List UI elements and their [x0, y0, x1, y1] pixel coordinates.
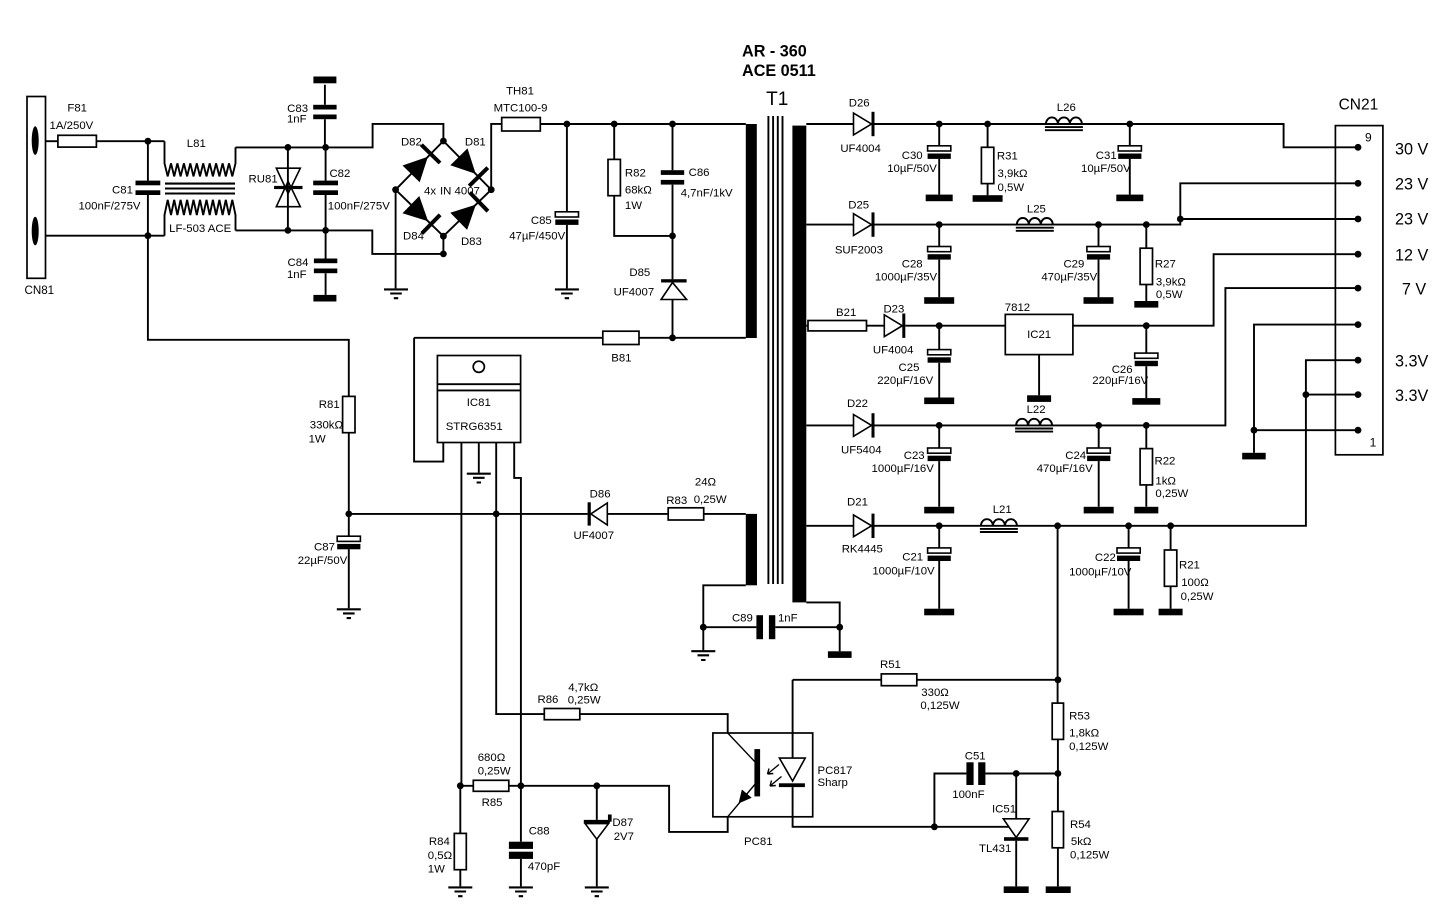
IC81 pin2 wire	[460, 443, 462, 786]
svg-text:CN81: CN81	[24, 284, 54, 297]
CN21 pin 3	[1355, 357, 1362, 364]
svg-text:R85: R85	[482, 797, 503, 809]
svg-text:D21: D21	[847, 496, 868, 508]
svg-text:D23: D23	[883, 303, 904, 315]
node C31	[1126, 121, 1133, 128]
capacitor C89	[756, 615, 763, 639]
svg-text:UF4007: UF4007	[574, 530, 615, 542]
svg-text:TL431: TL431	[979, 843, 1011, 855]
capacitor C29	[1098, 225, 1100, 298]
svg-text:F81: F81	[67, 103, 87, 115]
ferrite bead B81	[603, 331, 639, 344]
svg-text:R27: R27	[1155, 258, 1176, 270]
wire F81 to node L	[96, 140, 164, 142]
wire row4 rail	[806, 288, 1358, 425]
svg-text:330Ω: 330Ω	[921, 687, 949, 699]
svg-text:5kΩ: 5kΩ	[1071, 836, 1092, 848]
svg-text:3.3V: 3.3V	[1395, 353, 1429, 371]
wire R51 row	[793, 679, 1058, 681]
svg-text:22µF/50V: 22µF/50V	[298, 555, 348, 567]
CN21 pin 7	[1355, 216, 1362, 223]
node C24	[1095, 422, 1102, 429]
capacitor C24	[1098, 425, 1100, 506]
wire DC+ rail	[540, 123, 746, 125]
wire row3 rail	[806, 254, 1358, 326]
optocoupler PC81 box	[713, 733, 813, 817]
wire AC line rail top	[236, 124, 444, 147]
resistor R81	[148, 236, 349, 514]
ground D87	[585, 887, 609, 896]
op-amp regulator IC81 STRG6351 package	[437, 356, 520, 443]
svg-text:100nF/275V: 100nF/275V	[328, 200, 390, 212]
ground C85	[555, 289, 579, 298]
svg-text:L22: L22	[1027, 404, 1046, 416]
svg-text:PC81: PC81	[744, 836, 773, 848]
svg-text:0,25W: 0,25W	[1155, 488, 1188, 500]
wire CN81 pin2 to node N	[46, 235, 165, 237]
node C22	[1125, 522, 1132, 529]
PC81 phototransistor	[728, 733, 755, 762]
node R31	[984, 121, 991, 128]
diode D26	[854, 113, 872, 135]
svg-text:STRG6351: STRG6351	[446, 421, 503, 433]
CN21 pin 8	[1355, 180, 1362, 187]
svg-text:220µF/16V: 220µF/16V	[1092, 375, 1148, 387]
svg-text:D85: D85	[629, 267, 650, 279]
svg-text:C81: C81	[112, 185, 133, 197]
resistor R53	[1052, 703, 1063, 739]
transformer T1 secondary winding	[792, 126, 806, 603]
resistor R27	[1145, 225, 1147, 301]
connector CN81	[27, 97, 46, 279]
svg-text:47µF/450V: 47µF/450V	[509, 231, 565, 243]
node D87	[593, 782, 600, 789]
diode D23	[884, 315, 902, 337]
resistor R83	[668, 508, 704, 520]
diode D84	[403, 196, 429, 221]
svg-text:30 V: 30 V	[1395, 141, 1429, 159]
svg-text:4,7kΩ: 4,7kΩ	[568, 682, 599, 694]
svg-text:1,8kΩ: 1,8kΩ	[1069, 728, 1100, 740]
svg-text:IC81: IC81	[467, 397, 491, 409]
svg-text:LF-503 ACE: LF-503 ACE	[169, 223, 231, 235]
diode D25	[854, 214, 872, 236]
node C30	[936, 121, 943, 128]
svg-text:C21: C21	[902, 552, 923, 564]
diode D21	[854, 515, 872, 537]
node bridge top	[440, 138, 447, 145]
capacitor C82	[325, 147, 327, 230]
ground bridge	[384, 289, 408, 298]
CN21 pin 9	[1355, 144, 1362, 151]
svg-text:C23: C23	[904, 450, 925, 462]
diode D83	[450, 205, 476, 230]
svg-text:C89: C89	[732, 613, 753, 625]
bridge rectifier frame	[396, 141, 492, 236]
CN21 pin 2	[1355, 391, 1362, 398]
shunt regulator IC51 TL431	[1015, 774, 1017, 887]
svg-text:D84: D84	[403, 231, 424, 243]
svg-text:UF4004: UF4004	[873, 345, 914, 357]
svg-text:RK4445: RK4445	[842, 543, 883, 555]
node C26	[1143, 322, 1150, 329]
wire bridge right to TH81	[491, 124, 502, 190]
node C23	[936, 422, 943, 429]
svg-text:D87: D87	[612, 817, 633, 829]
node R51-R53	[1055, 676, 1062, 683]
ground CN21	[1242, 453, 1266, 460]
resistor R51	[881, 674, 917, 686]
svg-text:1A/250V: 1A/250V	[50, 120, 94, 132]
capacitor C26	[1145, 326, 1147, 398]
svg-text:23 V: 23 V	[1395, 210, 1429, 228]
svg-text:RU81: RU81	[249, 173, 278, 185]
capacitor C23	[938, 425, 940, 506]
svg-text:CN21: CN21	[1339, 97, 1379, 114]
svg-text:1000µF/10V: 1000µF/10V	[1069, 567, 1132, 579]
svg-text:C86: C86	[689, 167, 710, 179]
capacitor C85	[566, 124, 568, 288]
svg-text:0,5W: 0,5W	[998, 182, 1025, 194]
svg-text:C22: C22	[1095, 552, 1116, 564]
wire B81 to IC81 drain	[414, 338, 443, 462]
svg-text:4,7nF/1kV: 4,7nF/1kV	[681, 187, 733, 199]
resistor R22	[1145, 425, 1147, 506]
diode D86	[588, 502, 591, 525]
capacitor C83	[313, 77, 336, 84]
regulator IC21 7812	[1005, 314, 1073, 354]
node R22	[1143, 422, 1150, 429]
svg-text:3,9kΩ: 3,9kΩ	[998, 168, 1029, 180]
svg-text:1nF: 1nF	[287, 114, 307, 126]
transformer T1 primary winding top	[746, 124, 757, 338]
node 23V tap	[1177, 216, 1184, 223]
svg-text:B21: B21	[836, 307, 856, 319]
svg-text:C88: C88	[529, 826, 550, 838]
ground R84	[448, 887, 472, 896]
svg-text:R53: R53	[1069, 711, 1090, 723]
wire row5 rail	[806, 360, 1358, 526]
node L	[145, 138, 152, 145]
svg-text:C85: C85	[531, 215, 552, 227]
svg-text:220µF/16V: 220µF/16V	[877, 375, 933, 387]
node R21	[1167, 522, 1174, 529]
ground C87	[337, 609, 361, 618]
svg-text:D83: D83	[461, 236, 482, 248]
svg-text:L21: L21	[993, 504, 1012, 516]
svg-text:3.3V: 3.3V	[1395, 387, 1429, 405]
capacitor C86	[672, 124, 674, 236]
ferrite bead B21	[808, 321, 867, 331]
svg-text:1W: 1W	[625, 200, 642, 212]
node R27	[1143, 221, 1150, 228]
svg-text:C84: C84	[288, 257, 309, 269]
svg-text:R86: R86	[538, 694, 559, 706]
svg-text:R81: R81	[319, 399, 340, 411]
svg-text:0,25W: 0,25W	[1181, 591, 1214, 603]
svg-text:D82: D82	[401, 137, 422, 149]
inductor L26	[1046, 117, 1082, 124]
svg-text:23 V: 23 V	[1395, 176, 1429, 194]
svg-text:D22: D22	[847, 398, 868, 410]
svg-text:R22: R22	[1155, 456, 1176, 468]
resistor R54	[1052, 812, 1063, 848]
svg-text:C24: C24	[1065, 450, 1086, 462]
svg-text:100nF: 100nF	[952, 789, 984, 801]
svg-text:1: 1	[1370, 436, 1377, 450]
svg-text:UF4007: UF4007	[614, 286, 655, 298]
fuse F81	[58, 135, 97, 147]
node C51-TL431	[1013, 770, 1020, 777]
svg-text:470pF: 470pF	[528, 861, 560, 873]
svg-text:0,25W: 0,25W	[568, 695, 601, 707]
ground R54	[1046, 886, 1071, 893]
svg-text:D86: D86	[590, 489, 611, 501]
capacitor C87	[345, 511, 352, 518]
wire primary bottom to C89	[703, 585, 839, 627]
PC81 LED	[792, 680, 794, 758]
inductor L81 core	[165, 184, 235, 194]
svg-text:R21: R21	[1179, 560, 1200, 572]
svg-text:9: 9	[1365, 130, 1372, 144]
node D85-B81	[669, 334, 676, 341]
node 3.3V tap	[1303, 391, 1310, 398]
svg-text:10µF/50V: 10µF/50V	[887, 163, 937, 175]
inductor L81 top winding	[165, 141, 236, 176]
resistor R31	[987, 124, 989, 195]
node C21	[936, 522, 943, 529]
ground C89 right	[839, 627, 841, 651]
svg-text:L25: L25	[1027, 204, 1046, 216]
CN21 pin 4	[1355, 321, 1362, 328]
svg-text:R84: R84	[429, 836, 450, 848]
capacitor C28	[938, 225, 940, 298]
svg-text:10µF/50V: 10µF/50V	[1081, 163, 1131, 175]
wire C51 row	[934, 774, 1058, 827]
node bridge right	[488, 186, 495, 193]
inductor L25	[1017, 218, 1053, 225]
svg-text:68kΩ: 68kΩ	[625, 185, 652, 197]
resistor R85	[473, 780, 509, 791]
svg-text:1nF: 1nF	[287, 269, 307, 281]
svg-text:7812: 7812	[1005, 302, 1030, 314]
resistor R21	[1170, 526, 1172, 609]
node bridge left	[392, 186, 399, 193]
svg-text:1000µF/16V: 1000µF/16V	[872, 463, 935, 475]
svg-text:0,5Ω: 0,5Ω	[428, 850, 453, 862]
wire CN81 pin1 to F81	[46, 140, 58, 142]
wire CN21 ground pins	[1254, 325, 1358, 453]
IC21 ground	[1038, 355, 1040, 396]
svg-text:680Ω: 680Ω	[478, 752, 506, 764]
svg-text:UF5404: UF5404	[841, 445, 882, 457]
svg-text:R82: R82	[625, 168, 646, 180]
IC81 pin5 wire	[514, 443, 521, 786]
svg-text:C29: C29	[1063, 258, 1084, 270]
svg-text:1000µF/10V: 1000µF/10V	[872, 566, 935, 578]
wire B81 row	[414, 337, 746, 339]
node C28	[936, 221, 943, 228]
transformer T1 core	[768, 116, 782, 584]
capacitor C51	[966, 762, 973, 785]
svg-text:UF4004: UF4004	[840, 143, 881, 155]
svg-text:C82: C82	[329, 168, 350, 180]
svg-text:470µF/35V: 470µF/35V	[1041, 272, 1097, 284]
svg-text:12 V: 12 V	[1395, 247, 1429, 265]
svg-text:0,5W: 0,5W	[1156, 289, 1183, 301]
node C51 left	[931, 823, 938, 830]
svg-text:IC51: IC51	[992, 804, 1016, 816]
node C25	[936, 322, 943, 329]
svg-text:4x: 4x	[424, 185, 436, 197]
wire bridge bottom stub	[442, 236, 444, 254]
capacitor C25	[938, 326, 940, 398]
inductor L81 bottom winding	[165, 200, 236, 236]
svg-text:L81: L81	[187, 138, 206, 150]
wire R86 to PC81	[580, 714, 728, 733]
svg-text:100Ω: 100Ω	[1181, 577, 1209, 589]
svg-text:MTC100-9: MTC100-9	[494, 103, 548, 115]
resistor R84	[459, 786, 461, 887]
resistor R86	[544, 709, 580, 720]
svg-text:C51: C51	[965, 751, 986, 763]
ground C88	[509, 887, 533, 896]
svg-text:C30: C30	[902, 150, 923, 162]
capacitor C81	[147, 141, 149, 236]
CN21 pin 5	[1355, 285, 1362, 292]
svg-text:IN 4007: IN 4007	[440, 185, 480, 197]
zener D87	[596, 786, 598, 887]
capacitor C22	[1128, 526, 1130, 609]
node C29	[1095, 221, 1102, 228]
svg-text:100nF/275V: 100nF/275V	[78, 201, 140, 213]
svg-text:0,25W: 0,25W	[694, 494, 727, 506]
node R85-C88	[518, 782, 525, 789]
node feedback	[1054, 522, 1061, 529]
svg-text:C25: C25	[899, 362, 920, 374]
wire feedback vertical	[1057, 526, 1059, 887]
svg-text:T1: T1	[766, 89, 788, 110]
svg-text:R31: R31	[997, 151, 1018, 163]
svg-text:D81: D81	[465, 137, 486, 149]
inductor L21	[981, 519, 1017, 526]
wire row2 23V rail	[806, 183, 1358, 224]
capacitor C31	[1129, 124, 1131, 195]
svg-text:Sharp: Sharp	[818, 777, 848, 789]
svg-text:1kΩ: 1kΩ	[1155, 475, 1176, 487]
svg-text:L26: L26	[1057, 102, 1076, 114]
node C89 right	[836, 624, 843, 631]
inductor L22	[1016, 419, 1052, 426]
svg-text:R54: R54	[1070, 819, 1091, 831]
node R84-R85	[457, 782, 464, 789]
svg-text:0,125W: 0,125W	[920, 700, 960, 712]
svg-text:24Ω: 24Ω	[695, 477, 717, 489]
node C89 left	[700, 624, 707, 631]
svg-text:470µF/16V: 470µF/16V	[1037, 463, 1093, 475]
svg-text:330kΩ: 330kΩ	[310, 420, 344, 432]
CN21 pin 6	[1355, 251, 1362, 258]
node R82-C86-D85	[669, 233, 676, 240]
wire R85 row	[460, 785, 597, 787]
diode D82	[403, 157, 428, 183]
capacitor C88	[520, 786, 522, 887]
thermistor TH81	[502, 118, 541, 132]
svg-text:3,9kΩ: 3,9kΩ	[1156, 277, 1187, 289]
svg-text:1nF: 1nF	[778, 613, 798, 625]
PC81 emitter wire	[597, 786, 728, 832]
svg-text:D25: D25	[848, 200, 869, 212]
svg-text:7 V: 7 V	[1402, 280, 1427, 298]
diode D22	[854, 415, 872, 437]
svg-text:C87: C87	[314, 542, 335, 554]
wire aux rail	[349, 513, 746, 515]
svg-text:AR - 360: AR - 360	[742, 43, 807, 61]
node N	[145, 232, 152, 239]
svg-text:1W: 1W	[428, 863, 445, 875]
svg-text:PC817: PC817	[818, 765, 853, 777]
IC81 pin3 ground	[478, 443, 480, 473]
ground TL431	[1004, 886, 1029, 893]
CN21 pin 1	[1355, 427, 1362, 434]
node CN21 gnd	[1251, 427, 1258, 434]
resistor R82	[614, 124, 672, 236]
svg-text:B81: B81	[611, 352, 631, 364]
svg-text:D26: D26	[849, 98, 870, 110]
svg-text:1W: 1W	[309, 433, 326, 445]
wire bridge left to ground	[395, 190, 397, 289]
PC81 light arrows	[768, 765, 780, 775]
svg-text:1000µF/35V: 1000µF/35V	[875, 272, 938, 284]
node R53-R54	[1055, 770, 1062, 777]
svg-text:C31: C31	[1096, 150, 1117, 162]
svg-text:C28: C28	[902, 258, 923, 270]
svg-text:SUF2003: SUF2003	[835, 245, 883, 257]
svg-text:0,125W: 0,125W	[1069, 741, 1109, 753]
capacitor C84	[325, 230, 327, 295]
wire row1 30V rail	[806, 124, 1358, 147]
node bridge bottom	[440, 233, 447, 240]
svg-text:R51: R51	[880, 659, 901, 671]
svg-text:2V7: 2V7	[614, 831, 634, 843]
svg-text:R83: R83	[666, 495, 687, 507]
svg-text:0,25W: 0,25W	[478, 766, 511, 778]
svg-text:ACE 0511: ACE 0511	[742, 62, 816, 80]
connector CN21	[1335, 126, 1383, 455]
diode D81	[450, 148, 475, 174]
ground C89 left	[702, 627, 704, 650]
svg-text:TH81: TH81	[506, 86, 534, 98]
IC81 pin4 wire	[496, 443, 544, 715]
svg-text:0,125W: 0,125W	[1070, 850, 1110, 862]
capacitor C21	[938, 526, 940, 609]
diode D85	[672, 236, 674, 338]
node pin4 aux	[493, 511, 500, 518]
transformer T1 primary winding bottom	[746, 514, 757, 585]
capacitor C30	[938, 124, 940, 195]
wire AC neutral rail bottom	[236, 230, 444, 254]
svg-text:IC21: IC21	[1027, 329, 1051, 341]
varistor RU81	[287, 147, 289, 230]
